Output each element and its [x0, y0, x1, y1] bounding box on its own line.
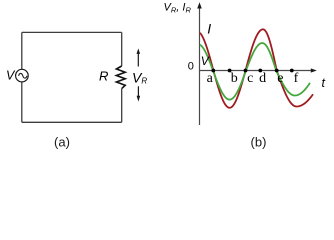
arrow down (V_R polarity): [137, 86, 141, 101]
wire left lower segment: [21, 82, 23, 122]
arrow up (V_R polarity): [137, 48, 141, 66]
node d dot: [258, 69, 262, 73]
node c dot: [244, 69, 248, 73]
ac source V (circle with sine): [16, 69, 29, 82]
svg-text:t: t: [322, 76, 326, 90]
curve V (green): [200, 43, 310, 100]
svg-text:b: b: [231, 71, 238, 86]
svg-text:V: V: [201, 54, 210, 68]
svg-text:f: f: [294, 71, 299, 86]
wire left upper segment: [21, 32, 23, 69]
y-axis: [199, 7, 201, 125]
svg-text:R: R: [99, 69, 108, 84]
wire right lower segment: [121, 89, 123, 123]
node b dot: [228, 69, 232, 73]
svg-text:d: d: [259, 71, 266, 86]
node f dot: [290, 69, 294, 73]
curve I (dark red): [200, 29, 313, 107]
svg-text:c: c: [247, 71, 253, 86]
node a dot: [211, 69, 215, 73]
svg-text:a: a: [207, 71, 214, 86]
svg-text:(a): (a): [54, 135, 70, 150]
svg-text:I: I: [207, 20, 211, 36]
svg-text:0: 0: [188, 61, 194, 73]
svg-text:(b): (b): [251, 135, 267, 150]
wire bottom of circuit loop: [22, 121, 122, 123]
resistor R zigzag: [116, 66, 125, 89]
wire top of circuit loop: [22, 31, 122, 33]
wire right upper segment: [121, 32, 123, 66]
svg-text:e: e: [277, 71, 283, 86]
node e dot: [275, 69, 279, 73]
x-axis (t): [200, 70, 313, 72]
